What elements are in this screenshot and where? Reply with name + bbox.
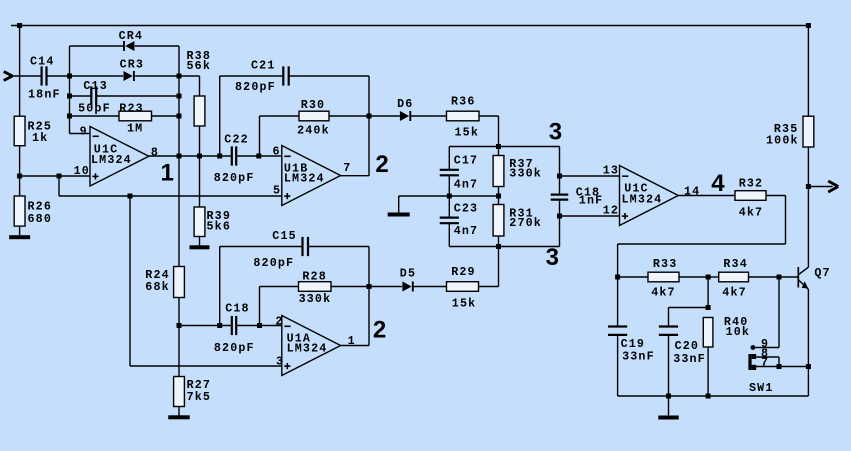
junction bbox=[177, 74, 182, 79]
wire bbox=[498, 116, 500, 147]
junction bbox=[57, 174, 62, 179]
resistor R31 bbox=[493, 205, 542, 237]
svg-text:9: 9 bbox=[80, 124, 88, 138]
wire bbox=[199, 237, 201, 246]
wire bbox=[19, 26, 21, 117]
wire bbox=[708, 276, 719, 278]
svg-text:C17: C17 bbox=[454, 153, 479, 167]
junction bbox=[256, 154, 261, 159]
wire pin 10 stub bbox=[20, 175, 90, 177]
resistor R27 bbox=[174, 377, 212, 407]
svg-text:2: 2 bbox=[373, 317, 386, 344]
junction bbox=[806, 23, 811, 28]
svg-text:R28: R28 bbox=[302, 270, 327, 284]
wire bbox=[259, 116, 261, 156]
wire pin 12 line bbox=[560, 215, 620, 217]
wire bbox=[399, 195, 450, 197]
wire bbox=[369, 286, 402, 288]
svg-text:33nF: 33nF bbox=[622, 350, 655, 364]
junction bbox=[367, 114, 372, 119]
junction bbox=[177, 154, 182, 159]
svg-text:7: 7 bbox=[761, 356, 769, 370]
resistor R39 bbox=[194, 207, 231, 237]
svg-text:Q7: Q7 bbox=[814, 266, 830, 280]
svg-text:5: 5 bbox=[273, 184, 281, 198]
wire bbox=[58, 176, 60, 196]
junction bbox=[706, 394, 711, 399]
junction bbox=[496, 194, 501, 199]
wire bbox=[19, 176, 21, 196]
wire bbox=[414, 286, 447, 288]
junction bbox=[615, 275, 620, 280]
capacitor C22 bbox=[214, 132, 255, 185]
wire rail to pin 5 bbox=[59, 195, 282, 197]
svg-text:1M: 1M bbox=[127, 121, 143, 135]
wire pin 8 output bbox=[149, 155, 179, 157]
svg-text:3: 3 bbox=[549, 119, 562, 146]
svg-text:4: 4 bbox=[711, 170, 725, 197]
wire bbox=[70, 95, 91, 97]
svg-text:C14: C14 bbox=[30, 55, 55, 69]
wire pin 9 stub bbox=[70, 133, 91, 135]
resistor R26 bbox=[14, 196, 52, 226]
capacitor C18 bbox=[214, 302, 255, 355]
diode D5 bbox=[400, 267, 416, 292]
junction bbox=[217, 154, 222, 159]
ground bbox=[658, 416, 679, 420]
svg-text:8: 8 bbox=[151, 146, 159, 160]
resistor R37 bbox=[493, 156, 542, 187]
junction bbox=[217, 323, 222, 328]
wire bbox=[152, 115, 180, 117]
junction bbox=[557, 174, 562, 179]
ground bbox=[388, 213, 410, 217]
svg-text:330k: 330k bbox=[299, 292, 332, 306]
wire bbox=[617, 335, 619, 396]
svg-text:LM324: LM324 bbox=[622, 192, 663, 206]
svg-text:R32: R32 bbox=[739, 176, 764, 190]
resistor R28 bbox=[299, 270, 332, 307]
svg-text:SW1: SW1 bbox=[749, 381, 774, 395]
wire bbox=[479, 115, 499, 117]
svg-text:C23: C23 bbox=[454, 202, 479, 216]
junction bbox=[777, 364, 782, 369]
svg-text:240k: 240k bbox=[297, 124, 330, 138]
ground bbox=[190, 245, 210, 249]
wire bbox=[618, 276, 648, 278]
wire bbox=[368, 247, 370, 346]
wire bbox=[449, 246, 559, 248]
svg-text:33nF: 33nF bbox=[673, 352, 706, 366]
svg-text:6: 6 bbox=[273, 145, 281, 159]
wire bbox=[448, 176, 450, 218]
junction bbox=[17, 23, 22, 28]
svg-text:R29: R29 bbox=[451, 265, 476, 279]
junction bbox=[197, 154, 202, 159]
svg-text:C15: C15 bbox=[272, 229, 297, 243]
capacitor C18 bbox=[551, 186, 604, 208]
resistor R36 bbox=[447, 94, 480, 139]
svg-text:14: 14 bbox=[684, 185, 700, 199]
wire bbox=[668, 308, 670, 327]
junction bbox=[557, 214, 562, 219]
svg-text:15k: 15k bbox=[455, 126, 480, 140]
wire bbox=[498, 187, 500, 205]
wire bbox=[97, 95, 179, 97]
junction bbox=[367, 284, 372, 289]
wire bbox=[807, 147, 809, 267]
wire bbox=[749, 276, 780, 278]
wire bbox=[69, 46, 71, 134]
wire bbox=[220, 246, 303, 248]
node VIN input arrow bbox=[4, 72, 13, 81]
wire bbox=[331, 286, 369, 288]
wire bbox=[668, 335, 670, 396]
svg-text:13: 13 bbox=[603, 164, 619, 178]
capacitor C21 bbox=[235, 59, 289, 94]
wire U1B output bbox=[340, 175, 369, 177]
op-amp U1A stage 2b bbox=[275, 314, 355, 375]
svg-text:4k7: 4k7 bbox=[739, 205, 764, 219]
svg-text:D5: D5 bbox=[400, 267, 416, 281]
svg-text:CR4: CR4 bbox=[119, 29, 144, 43]
wire bbox=[559, 147, 561, 195]
op-amp U1C stage 1 bbox=[74, 124, 159, 186]
diode D6 bbox=[397, 97, 413, 121]
resistor R40 bbox=[703, 315, 750, 347]
capacitor C14 bbox=[28, 55, 61, 102]
wire bbox=[669, 307, 709, 309]
resistor R25 bbox=[14, 116, 52, 146]
junction bbox=[706, 275, 711, 280]
wire pin 3 line bbox=[130, 365, 282, 367]
resistor R24 bbox=[145, 267, 184, 298]
wire bbox=[448, 224, 450, 247]
wire bbox=[778, 357, 780, 367]
junction bbox=[447, 194, 452, 199]
wire bbox=[259, 287, 261, 326]
svg-text:820pF: 820pF bbox=[214, 341, 255, 355]
svg-text:12: 12 bbox=[603, 203, 619, 217]
junction bbox=[706, 305, 711, 310]
svg-text:1nF: 1nF bbox=[579, 193, 604, 207]
diode CR3 bbox=[120, 58, 145, 82]
wire bbox=[70, 75, 124, 77]
wire right rail upper bbox=[807, 26, 809, 117]
wire feedback to Q7 base divider bbox=[618, 243, 786, 245]
wire Q7 base stub bbox=[779, 276, 798, 278]
svg-text:2: 2 bbox=[275, 314, 283, 328]
svg-text:2: 2 bbox=[375, 151, 388, 178]
svg-text:7: 7 bbox=[343, 161, 351, 175]
svg-text:7k5: 7k5 bbox=[187, 390, 212, 404]
wire bottom rail bbox=[618, 395, 809, 397]
svg-text:R34: R34 bbox=[723, 257, 748, 271]
junction bbox=[777, 275, 782, 280]
wire SW1 pin 7 bbox=[752, 366, 809, 368]
wire bbox=[129, 196, 131, 366]
resistor R38 bbox=[187, 49, 212, 126]
wire bbox=[411, 115, 446, 117]
wire pin 14 output bbox=[678, 195, 735, 197]
wire bbox=[179, 75, 200, 77]
wire bbox=[498, 147, 500, 156]
capacitor C23 bbox=[440, 202, 479, 239]
svg-text:68k: 68k bbox=[145, 280, 170, 294]
wire bbox=[707, 347, 709, 396]
svg-text:D6: D6 bbox=[397, 97, 413, 111]
junction bbox=[128, 194, 133, 199]
svg-text:820pF: 820pF bbox=[253, 256, 294, 270]
svg-text:CR3: CR3 bbox=[120, 58, 145, 72]
junction bbox=[177, 323, 182, 328]
wire bbox=[329, 115, 369, 117]
wire bbox=[260, 286, 299, 288]
svg-text:R36: R36 bbox=[451, 94, 476, 108]
svg-text:R30: R30 bbox=[301, 98, 326, 112]
svg-text:LM324: LM324 bbox=[91, 153, 132, 167]
junction bbox=[496, 244, 501, 249]
wire bbox=[289, 75, 369, 77]
svg-text:5k6: 5k6 bbox=[207, 219, 232, 233]
svg-text:C21: C21 bbox=[251, 59, 276, 73]
junction bbox=[177, 94, 182, 99]
svg-text:18nF: 18nF bbox=[28, 87, 61, 101]
wire bbox=[668, 396, 670, 416]
wire bbox=[498, 247, 500, 287]
wire bbox=[220, 75, 283, 77]
svg-text:4n7: 4n7 bbox=[454, 224, 479, 238]
wire bbox=[260, 115, 300, 117]
svg-text:100k: 100k bbox=[766, 133, 799, 147]
wire bbox=[479, 286, 499, 288]
capacitor C15 bbox=[253, 229, 308, 270]
wire bbox=[178, 46, 180, 267]
svg-text:680: 680 bbox=[28, 212, 53, 226]
resistor R33 bbox=[648, 257, 679, 300]
svg-text:4k7: 4k7 bbox=[722, 286, 747, 300]
transistor Q7 bbox=[798, 266, 830, 289]
wire U1A output bbox=[340, 345, 369, 347]
switch SW1 body bbox=[748, 346, 773, 395]
svg-text:1k: 1k bbox=[32, 131, 48, 145]
svg-text:820pF: 820pF bbox=[214, 171, 255, 185]
svg-text:270k: 270k bbox=[509, 216, 542, 230]
wire bbox=[70, 45, 124, 47]
op-amp U1C stage 4 bbox=[603, 164, 701, 226]
svg-text:LM324: LM324 bbox=[287, 341, 328, 355]
wire bbox=[559, 200, 561, 247]
svg-text:330k: 330k bbox=[509, 166, 542, 180]
junction bbox=[806, 184, 811, 189]
junction bbox=[257, 323, 262, 328]
svg-text:1: 1 bbox=[161, 160, 174, 187]
wire bbox=[807, 289, 809, 396]
op-amp U1B stage 2 bbox=[273, 145, 352, 206]
junction bbox=[496, 144, 501, 149]
wire bbox=[785, 196, 787, 245]
wire bbox=[237, 325, 282, 327]
wire bbox=[199, 126, 201, 207]
svg-text:50pF: 50pF bbox=[78, 102, 111, 116]
wire bbox=[135, 75, 179, 77]
ground bbox=[9, 235, 30, 239]
wire bbox=[178, 298, 180, 377]
junction bbox=[67, 74, 72, 79]
svg-text:C13: C13 bbox=[83, 79, 108, 93]
resistor R23 bbox=[119, 101, 152, 135]
wire bbox=[368, 76, 370, 176]
svg-text:4k7: 4k7 bbox=[651, 286, 676, 300]
wire bbox=[679, 276, 708, 278]
junction bbox=[177, 114, 182, 119]
wire SW1 pin 8 bbox=[756, 356, 779, 358]
wire bbox=[308, 246, 369, 248]
wire bbox=[617, 277, 619, 326]
wire bbox=[47, 75, 70, 77]
resistor R35 bbox=[766, 116, 814, 147]
svg-text:C22: C22 bbox=[224, 132, 249, 146]
junction bbox=[666, 394, 671, 399]
capacitor C19 bbox=[608, 327, 655, 364]
wire bbox=[179, 325, 231, 327]
resistor R30 bbox=[297, 98, 330, 138]
wire bbox=[135, 45, 179, 47]
svg-text:C18: C18 bbox=[225, 302, 250, 316]
wire bbox=[11, 25, 808, 27]
capacitor C17 bbox=[440, 153, 479, 191]
junction bbox=[67, 94, 72, 99]
resistor R29 bbox=[447, 265, 479, 311]
wire bbox=[19, 146, 21, 176]
capacitor C20 bbox=[659, 327, 706, 367]
wire pin 13 line bbox=[560, 175, 620, 177]
wire bbox=[449, 146, 559, 148]
wire bbox=[778, 277, 780, 348]
junction bbox=[67, 114, 72, 119]
wire bbox=[617, 244, 619, 277]
wire bbox=[12, 75, 41, 77]
ground bbox=[168, 415, 190, 419]
svg-text:4n7: 4n7 bbox=[454, 177, 479, 191]
node VOUT output arrow bbox=[808, 181, 838, 192]
svg-text:3: 3 bbox=[276, 354, 284, 368]
svg-text:56k: 56k bbox=[187, 59, 212, 73]
svg-text:3: 3 bbox=[546, 244, 559, 271]
wire bbox=[199, 76, 201, 96]
svg-text:820pF: 820pF bbox=[235, 80, 276, 94]
junction bbox=[17, 174, 22, 179]
resistor R32 bbox=[735, 176, 766, 219]
svg-text:LM324: LM324 bbox=[284, 171, 325, 185]
wire bbox=[219, 247, 221, 326]
switch SW1 pin 9 bbox=[751, 337, 780, 351]
wire bbox=[237, 155, 282, 157]
capacitor C13 bbox=[78, 79, 111, 116]
wire bbox=[70, 115, 120, 117]
diode CR4 bbox=[119, 29, 144, 51]
wire bbox=[178, 407, 180, 416]
wire bbox=[707, 277, 709, 308]
wire bbox=[498, 236, 500, 247]
wire bbox=[179, 155, 231, 157]
wire bbox=[369, 115, 400, 117]
wire bbox=[398, 196, 400, 213]
svg-text:R33: R33 bbox=[653, 257, 678, 271]
wire bbox=[448, 147, 450, 170]
svg-text:R23: R23 bbox=[119, 101, 144, 115]
svg-text:15k: 15k bbox=[452, 296, 477, 310]
svg-text:10k: 10k bbox=[726, 325, 751, 339]
wire bbox=[766, 195, 786, 197]
resistor R34 bbox=[719, 257, 749, 300]
junction bbox=[806, 364, 811, 369]
wire bbox=[219, 76, 221, 156]
wire bbox=[19, 226, 21, 235]
wire bbox=[449, 195, 498, 197]
